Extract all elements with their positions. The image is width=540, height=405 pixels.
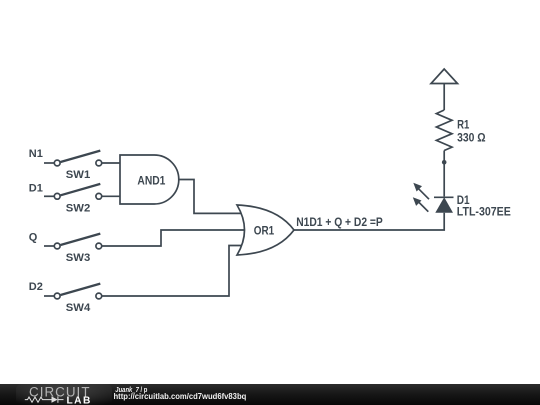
wire SW4 to OR1 input 3	[102, 246, 248, 297]
LED emission arrow 1	[418, 188, 429, 199]
svg-text:SW4: SW4	[66, 302, 91, 314]
logo resistor squiggle and diode	[25, 396, 64, 402]
logo highlight box	[16, 384, 112, 405]
power supply flag V+	[431, 69, 458, 110]
switch SW4	[44, 284, 102, 315]
resistor R1 330 ohm	[436, 110, 486, 151]
svg-text:N1: N1	[29, 148, 43, 160]
wire AND1 output to OR1 input 1	[179, 180, 248, 214]
svg-text:AND1: AND1	[137, 173, 165, 187]
wire R1 to LED anode	[443, 151, 445, 197]
svg-text:SW2: SW2	[66, 203, 90, 215]
svg-text:http://circuitlab.com/cd7wud6f: http://circuitlab.com/cd7wud6fv83bq	[114, 392, 247, 401]
wire SW2 to AND1 input B	[102, 195, 124, 197]
wire SW1 to AND1 input A	[102, 162, 124, 164]
wire OR1 output to LED cathode	[294, 213, 444, 230]
node junction	[442, 160, 447, 165]
svg-text:N1D1 + Q + D2 =P: N1D1 + Q + D2 =P	[296, 215, 383, 229]
switch SW2	[44, 184, 102, 215]
wire SW3 to OR1 input 2	[102, 230, 248, 246]
svg-text:Q: Q	[29, 232, 38, 244]
LED emission arrow 2	[418, 201, 429, 212]
svg-text:SW1: SW1	[66, 169, 90, 181]
switch SW1	[44, 151, 102, 182]
switch SW3	[44, 234, 102, 265]
svg-text:LAB: LAB	[67, 396, 91, 405]
svg-text:SW3: SW3	[66, 252, 90, 264]
LED D1 LTL-307EE	[413, 183, 511, 219]
or-gate OR1	[237, 205, 294, 255]
svg-text:330 Ω: 330 Ω	[457, 131, 486, 145]
CircuitLab logo and credits	[0, 384, 540, 405]
footer bar	[0, 384, 540, 405]
svg-text:OR1: OR1	[254, 224, 275, 238]
svg-text:LTL-307EE: LTL-307EE	[457, 204, 511, 218]
and-gate AND1	[120, 155, 179, 204]
svg-text:D1: D1	[29, 182, 43, 194]
svg-text:R1: R1	[457, 118, 469, 132]
svg-text:D2: D2	[29, 281, 43, 293]
